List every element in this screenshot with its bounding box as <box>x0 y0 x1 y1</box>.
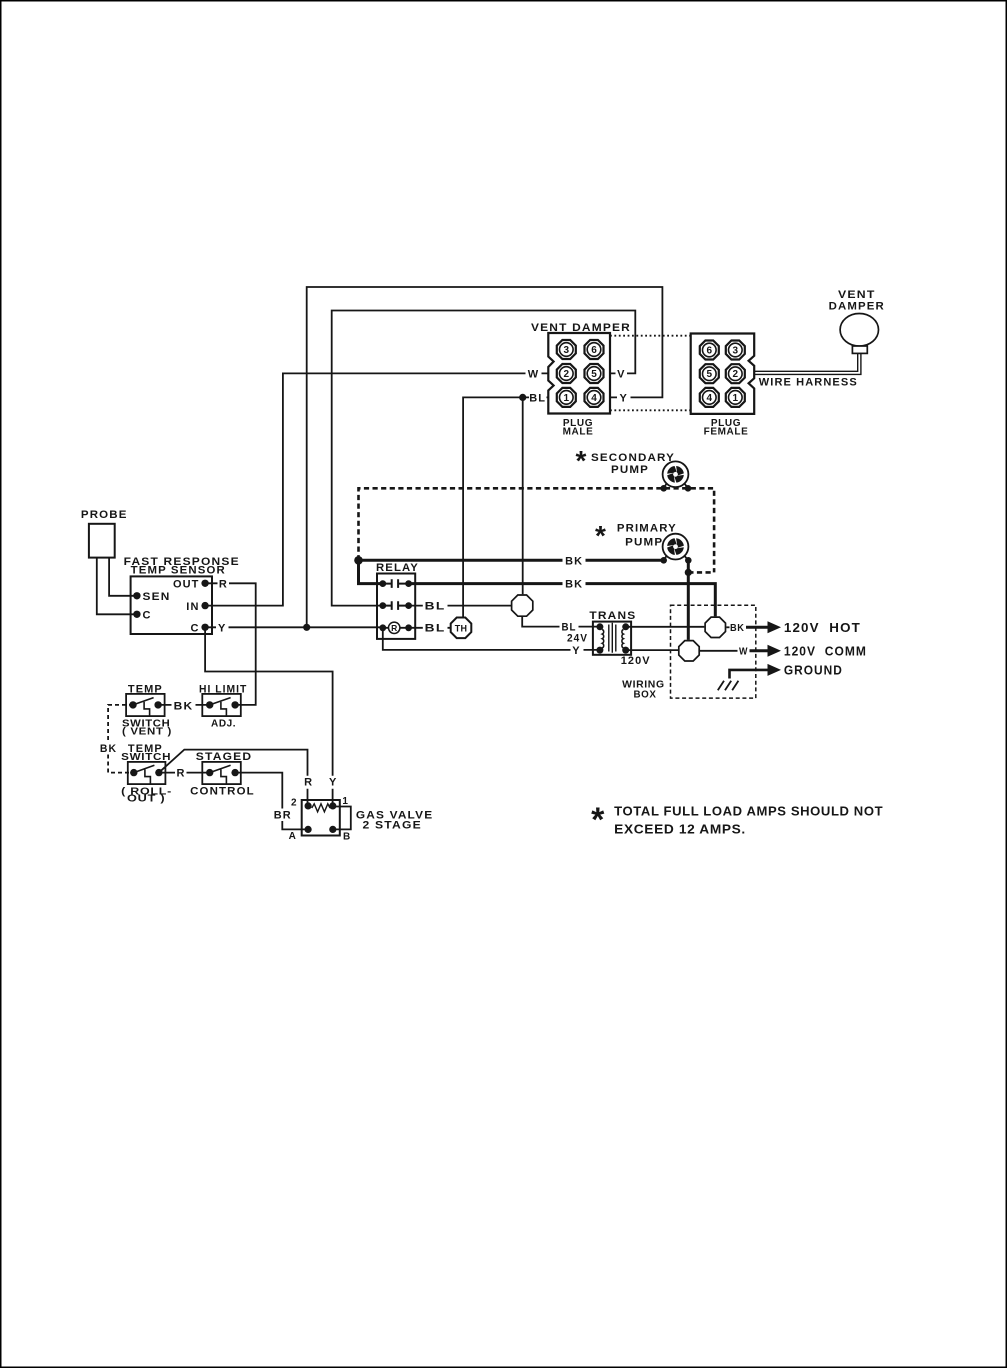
svg-text:6: 6 <box>591 345 597 356</box>
wire Y line: sensor C to relay coil <box>205 626 383 628</box>
svg-text:BL: BL <box>425 601 446 613</box>
relay contact row 2 <box>379 601 412 610</box>
vent damper motor <box>840 314 878 354</box>
svg-text:Y: Y <box>329 777 337 789</box>
svg-text:4: 4 <box>591 393 597 404</box>
svg-text:5: 5 <box>591 369 597 380</box>
svg-text:MALE: MALE <box>563 426 594 437</box>
wire W: plug male pin2 row to temp sensor IN <box>205 373 548 605</box>
plug female pin 3 <box>726 341 745 360</box>
svg-text:BK: BK <box>565 555 583 567</box>
plug female pin 6 <box>700 341 719 360</box>
relay contact row 1 <box>379 579 412 588</box>
staged control switch <box>202 762 241 784</box>
svg-text:*: * <box>591 801 605 839</box>
svg-text:STAGED: STAGED <box>196 751 253 763</box>
wire BL junction down to wire nut <box>522 397 524 594</box>
svg-text:24V: 24V <box>567 633 588 645</box>
transformer TRANS <box>593 622 631 655</box>
relay K1 box <box>377 574 415 639</box>
plug male pin 1 <box>557 388 576 407</box>
svg-text:GROUND: GROUND <box>784 662 843 677</box>
svg-text:BK: BK <box>565 579 583 591</box>
svg-text:R: R <box>219 578 228 590</box>
svg-text:2: 2 <box>291 798 297 809</box>
svg-text:ADJ.: ADJ. <box>211 718 236 729</box>
temp switch (roll-out) <box>128 762 166 784</box>
svg-text:*: * <box>576 445 587 476</box>
arrow 120V HOT <box>768 621 782 633</box>
temp sensor terminals <box>133 580 209 631</box>
svg-text:TEMP: TEMP <box>128 683 163 695</box>
thermostat TH octagon <box>451 618 472 639</box>
svg-text:1: 1 <box>733 393 739 404</box>
svg-text:VENT: VENT <box>838 289 876 301</box>
wire BK wire nut to 120V HOT arrow <box>726 626 729 628</box>
wire transformer 120V comm to W wire nut <box>626 649 679 651</box>
gas valve bracket terminals 1-B <box>333 807 351 830</box>
svg-text:DAMPER: DAMPER <box>829 300 885 312</box>
svg-text:SECONDARY: SECONDARY <box>591 452 675 464</box>
arrow 120V COMM <box>768 645 782 657</box>
wire roll-out to staged control <box>159 772 210 774</box>
svg-text:BL: BL <box>425 623 446 635</box>
svg-text:W: W <box>528 368 539 380</box>
connector J2 plug female outline <box>691 334 755 414</box>
connector J1 plug male outline <box>548 333 610 414</box>
dashed wire BK vent switch to roll-out switch <box>108 705 134 773</box>
svg-text:BL: BL <box>529 392 546 404</box>
svg-text:RELAY: RELAY <box>376 562 419 574</box>
svg-text:OUT ): OUT ) <box>127 794 165 805</box>
svg-text:2: 2 <box>564 369 570 380</box>
wire wire-nut to transformer BL <box>522 617 600 627</box>
svg-text:( VENT ): ( VENT ) <box>122 726 172 737</box>
wire harness double line <box>754 353 861 374</box>
svg-text:*: * <box>595 520 606 551</box>
wire probe to C <box>97 558 137 615</box>
svg-text:V: V <box>617 368 625 380</box>
dotted mating line bottom (plug male to plug female) <box>610 409 691 411</box>
svg-text:4: 4 <box>707 393 713 404</box>
svg-text:C: C <box>143 610 152 622</box>
plug female pin 5 <box>700 364 719 383</box>
svg-text:Y: Y <box>619 392 627 404</box>
svg-text:PUMP: PUMP <box>611 464 649 476</box>
svg-text:120V: 120V <box>621 655 651 667</box>
svg-text:R: R <box>304 777 313 789</box>
wiring box dashed outline <box>671 605 756 698</box>
plug female pin 2 <box>726 364 745 383</box>
wire BK relay to wiring box (thick) <box>409 584 716 617</box>
wire ground stub <box>730 670 770 679</box>
wire temp switch to hi limit <box>158 704 210 706</box>
wire probe to SEN <box>109 558 137 596</box>
svg-text:WIRE HARNESS: WIRE HARNESS <box>759 376 858 388</box>
wire primary pump down to W wire nut (thick) <box>687 560 690 640</box>
svg-text:2: 2 <box>733 369 739 380</box>
plug male pin 3 <box>557 340 576 359</box>
svg-text:A: A <box>289 831 297 842</box>
gas valve terminals <box>305 802 337 833</box>
wire transformer 120V hot to BK wire nut <box>626 626 705 628</box>
svg-text:TH: TH <box>455 623 468 633</box>
plug female pin 4 <box>700 388 719 407</box>
hi limit switch <box>202 694 241 716</box>
relay coil R row 3 <box>379 622 412 633</box>
svg-text:EXCEED 12 AMPS.: EXCEED 12 AMPS. <box>614 822 746 837</box>
svg-text:Y: Y <box>572 645 580 657</box>
svg-text:BK: BK <box>174 700 194 712</box>
svg-text:TRANS: TRANS <box>589 610 636 622</box>
wire nut connector W (120V comm) <box>679 641 699 661</box>
wire sensor C down to gas valve Y terminal <box>205 627 333 806</box>
fast response temp sensor box <box>131 576 212 634</box>
wire relay coil to transformer Y <box>383 628 600 650</box>
svg-text:TOTAL FULL LOAD AMPS SHOULD NO: TOTAL FULL LOAD AMPS SHOULD NOT <box>614 803 883 818</box>
wire thick corner to relay row1 <box>359 560 383 583</box>
dotted mating line top (plug male to plug female) <box>610 335 691 337</box>
ground symbol <box>718 681 739 691</box>
svg-text:SEN: SEN <box>143 591 171 603</box>
temp switch (vent) <box>126 694 165 716</box>
plug male pin 4 <box>585 388 604 407</box>
wire V: plug male pin5 row to relay row 2 <box>332 311 636 606</box>
wire nut connector BK (120V hot) <box>705 617 725 637</box>
junction dot pump circuit corner <box>354 556 363 565</box>
wire BK pump feed (thick) <box>359 559 664 562</box>
plug male pin 6 <box>585 340 604 359</box>
svg-text:B: B <box>343 832 351 843</box>
plug male pin 2 <box>557 364 576 383</box>
svg-text:VENT DAMPER: VENT DAMPER <box>531 322 631 334</box>
gas valve box <box>302 800 340 836</box>
wire staged control to gas valve A (BR) <box>235 773 308 830</box>
junction dot Y line <box>303 624 310 631</box>
junction dot BL <box>519 394 526 401</box>
wire roll-out blade to gas valve R <box>159 750 308 806</box>
svg-text:IN: IN <box>186 601 199 613</box>
svg-text:R: R <box>391 623 397 633</box>
wire relay row3 BL to TH <box>409 627 451 629</box>
svg-text:BR: BR <box>274 810 292 822</box>
wire Y: plug male pin4 row to temp sensor Y line <box>307 287 663 627</box>
svg-text:R: R <box>176 768 185 780</box>
arrow GROUND <box>768 664 782 676</box>
svg-text:3: 3 <box>733 345 739 356</box>
svg-text:BK: BK <box>730 623 745 634</box>
wire BL: plug male pin1 row to TH thermostat <box>463 397 548 617</box>
svg-text:2 STAGE: 2 STAGE <box>363 820 422 832</box>
svg-text:HI LIMIT: HI LIMIT <box>199 683 247 695</box>
svg-text:FEMALE: FEMALE <box>704 426 749 437</box>
svg-text:PROBE: PROBE <box>81 509 128 521</box>
wire R: sensor OUT to HI LIMIT <box>205 583 256 705</box>
dashed pump circuit outline <box>359 488 715 572</box>
svg-text:W: W <box>739 647 748 658</box>
svg-text:Y: Y <box>218 622 226 634</box>
probe box <box>89 524 115 558</box>
svg-text:6: 6 <box>707 345 713 356</box>
svg-text:3: 3 <box>564 345 570 356</box>
wire W wire nut to 120V COMM arrow <box>700 650 738 652</box>
svg-text:CONTROL: CONTROL <box>190 785 255 797</box>
wire relay row2 BL to wire nut <box>409 605 511 607</box>
svg-text:SWITCH: SWITCH <box>121 752 171 763</box>
svg-text:5: 5 <box>707 369 713 380</box>
svg-text:PUMP: PUMP <box>625 536 663 548</box>
secondary pump motor <box>660 461 691 491</box>
plug female pin 1 <box>726 388 745 407</box>
svg-text:BK: BK <box>100 743 117 755</box>
junction dot primary pump to dashed box <box>685 569 692 576</box>
plug male pin 5 <box>585 364 604 383</box>
svg-text:1: 1 <box>564 393 570 404</box>
svg-text:TEMP SENSOR: TEMP SENSOR <box>131 564 226 576</box>
svg-text:120V HOT: 120V HOT <box>784 620 861 635</box>
svg-text:1: 1 <box>342 796 348 807</box>
wire nut connector (BL 24V) <box>512 595 533 616</box>
svg-text:BOX: BOX <box>634 690 657 701</box>
svg-text:PRIMARY: PRIMARY <box>617 522 677 534</box>
gas valve resistor <box>312 804 330 812</box>
primary pump motor <box>660 534 691 564</box>
svg-text:120V COMM: 120V COMM <box>784 643 867 658</box>
svg-text:OUT: OUT <box>173 578 200 590</box>
svg-text:C: C <box>190 622 199 634</box>
